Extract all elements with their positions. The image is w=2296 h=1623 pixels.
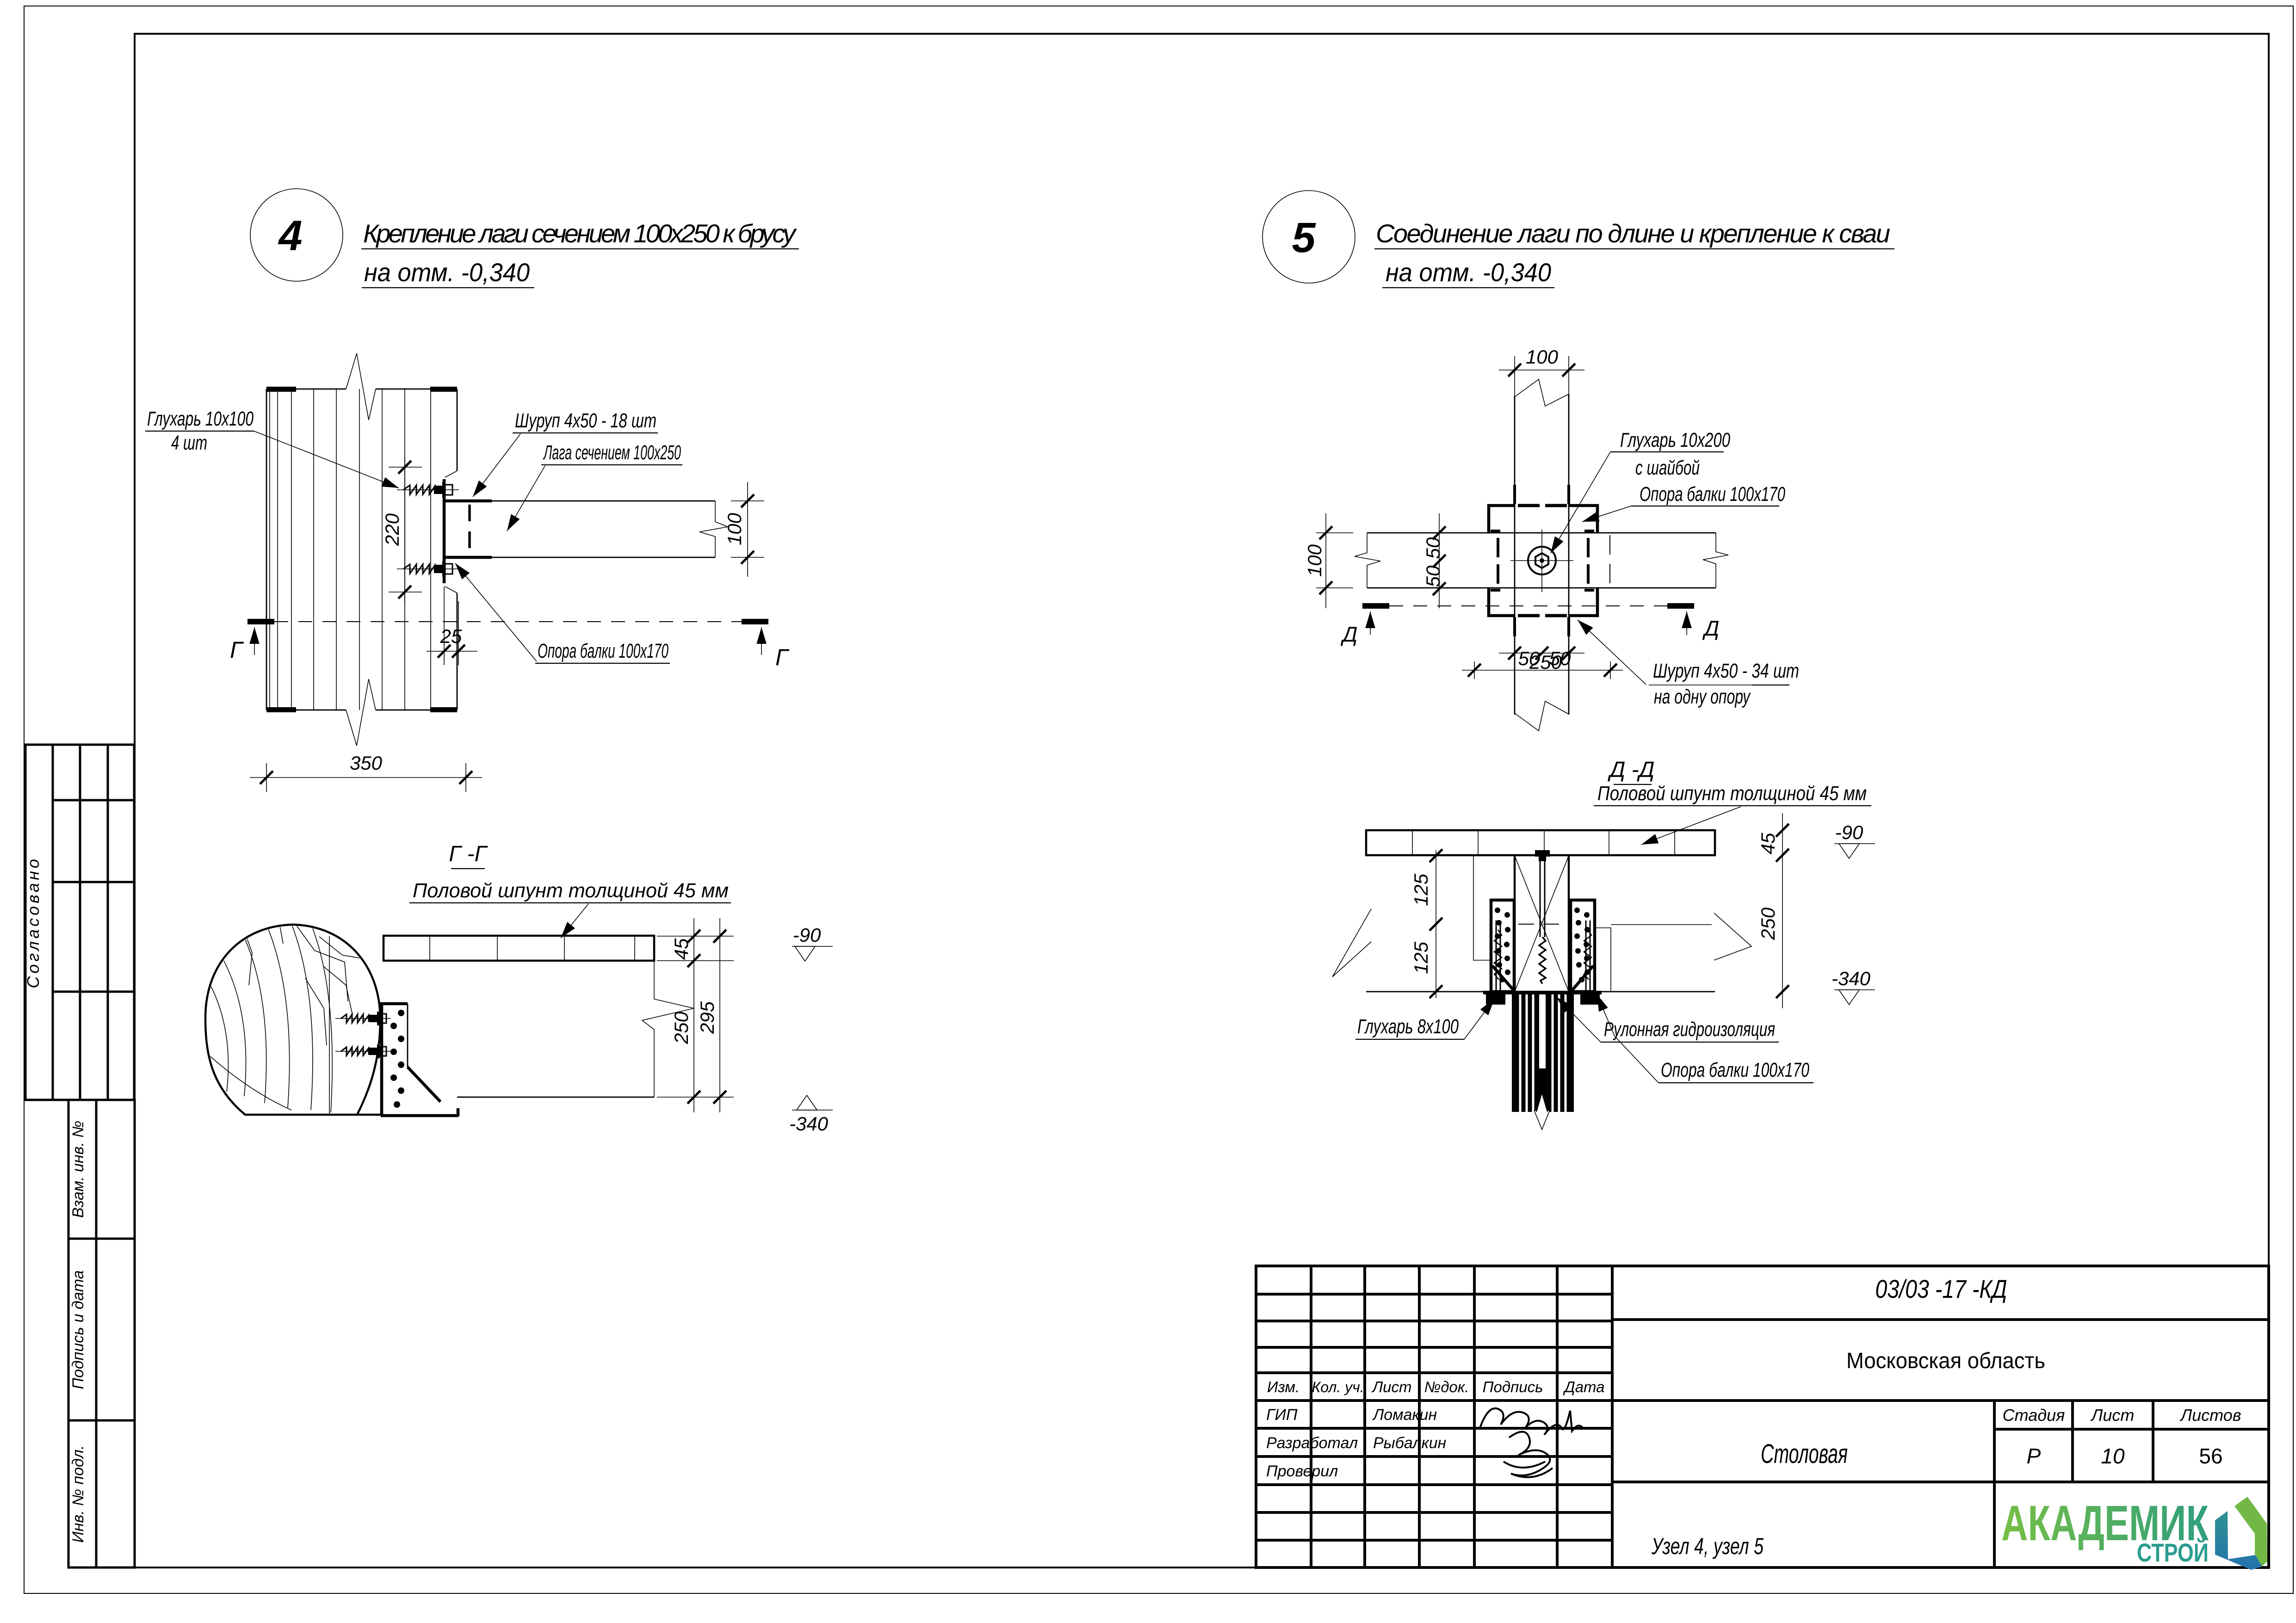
left nut cluster	[1486, 994, 1505, 1005]
svg-text:100: 100	[1526, 346, 1559, 368]
horizontal beam right end with break	[1703, 533, 1728, 588]
beam right break wedge	[1714, 913, 1751, 960]
dimension 45/250 (Д-Д right)	[1757, 813, 1789, 1008]
right hanger gusset	[1572, 966, 1593, 990]
lag screw 2 (нижний глухарь) axis	[397, 568, 459, 569]
svg-text:Шуруп 4х50 - 18 шт: Шуруп 4х50 - 18 шт	[515, 409, 656, 432]
wall edge black marks	[266, 387, 296, 392]
floor board (Д-Д)	[1366, 830, 1715, 855]
section arrow Д right	[1686, 611, 1687, 635]
beam bottom edge	[457, 1097, 654, 1098]
elevation mark -90 (Г-Г)	[792, 924, 833, 961]
leader to floor board (Д-Д)	[1641, 807, 1741, 845]
svg-text:-340: -340	[789, 1113, 829, 1135]
svg-text:Лага сечением 100х250: Лага сечением 100х250	[543, 441, 681, 464]
cross beam section edges	[1514, 856, 1516, 992]
logo icon blue ribbon	[2215, 1511, 2262, 1570]
svg-text:Р: Р	[2027, 1444, 2041, 1468]
leader to joist top	[473, 434, 520, 497]
section bar Д left	[1362, 603, 1389, 609]
svg-text:Опора балки 100х170: Опора балки 100х170	[538, 640, 668, 662]
signature 1	[1479, 1408, 1583, 1435]
wall right face lower segment	[457, 593, 458, 710]
svg-text:Г: Г	[775, 644, 790, 670]
svg-text:Взам. инв. №: Взам. инв. №	[69, 1121, 87, 1218]
dimension 100 (top)	[1499, 346, 1584, 398]
beam right end with break	[642, 961, 694, 1097]
hanger side tabs on vertical beam (hidden)	[1513, 485, 1516, 504]
dimension 220	[381, 457, 422, 602]
vertical beam top break	[1515, 379, 1569, 406]
svg-text:25: 25	[440, 625, 462, 647]
right hanger plate (Д-Д)	[1571, 900, 1595, 992]
svg-text:10: 10	[2101, 1444, 2125, 1468]
leader to washer	[1551, 452, 1610, 553]
dimension 125/125 (Д-Д left)	[1410, 849, 1442, 998]
section arrow left	[254, 627, 255, 655]
hanger corner screws	[1491, 531, 1594, 590]
leader to floor board	[561, 904, 588, 938]
lag screw 1 (верхний глухарь) axis	[397, 489, 459, 490]
lag screw 1 body	[403, 482, 452, 498]
leader to joist body	[507, 466, 545, 531]
svg-text:Проверил: Проверил	[1266, 1463, 1338, 1480]
lag screw 2 body	[403, 561, 452, 577]
section cut line Г-Г dashed	[274, 621, 742, 622]
horizontal beam bottom edge	[1367, 587, 1716, 589]
svg-text:-90: -90	[1835, 821, 1863, 843]
section arrow right	[761, 627, 762, 655]
bolt hex head	[1535, 553, 1548, 568]
detail 5 bubble	[1262, 191, 1355, 283]
right nut cluster	[1580, 994, 1600, 1005]
svg-text:на отм. -0,340: на отм. -0,340	[1386, 258, 1551, 287]
svg-text:Стадия: Стадия	[2003, 1406, 2065, 1425]
svg-text:Рулонная гидроизоляция: Рулонная гидроизоляция	[1604, 1018, 1775, 1041]
beam bottom edge (Д-Д)	[1366, 991, 1715, 993]
lower hanger screws (dashed thick)	[1518, 614, 1540, 617]
svg-text:Подпись: Подпись	[1483, 1378, 1543, 1395]
svg-text:Г -Г: Г -Г	[449, 842, 488, 866]
right hanger anchor screw	[1584, 920, 1591, 992]
dimension 50/50 (left of hanger)	[1422, 513, 1446, 608]
wall plank joints	[269, 389, 270, 710]
leader to right hanger	[1597, 994, 1659, 1083]
section bar Д right	[1667, 603, 1694, 609]
hanger bottom flange	[381, 1114, 458, 1117]
title block row lines	[1256, 1293, 1612, 1296]
vertical beam left edge	[1514, 396, 1516, 715]
dimension 25	[427, 586, 477, 665]
vertical beam right edge	[1568, 394, 1570, 715]
wall right face upper segment	[457, 389, 458, 471]
hanger top flange	[443, 500, 492, 503]
left hanger gusset	[1492, 966, 1513, 990]
right hanger nails	[1574, 907, 1590, 982]
svg-text:Глухарь 8х100: Глухарь 8х100	[1357, 1015, 1459, 1038]
svg-text:Столовая: Столовая	[1761, 1439, 1848, 1469]
dimension 100 (joist)	[724, 482, 764, 577]
svg-text:Д: Д	[1702, 616, 1719, 640]
svg-text:Глухарь 10х100: Глухарь 10х100	[147, 407, 254, 430]
hanger bottom flange	[443, 556, 492, 559]
svg-text:Разработал: Разработал	[1266, 1434, 1358, 1452]
dimension 100 (left, beam height)	[1304, 513, 1353, 608]
svg-text:03/03 -17 -КД: 03/03 -17 -КД	[1875, 1274, 2007, 1303]
horizontal beam top edge	[1367, 532, 1716, 534]
pile bottom break	[1537, 1094, 1547, 1112]
upper hanger screws (dashed thick)	[1518, 504, 1540, 507]
svg-text:45: 45	[670, 938, 692, 960]
inventory strip table (Взам.инв / Подпись и дата / Инв.№ подл.)	[68, 1100, 135, 1567]
wall notch lead-in top	[445, 471, 457, 477]
svg-text:Узел 4, узел 5: Узел 4, узел 5	[1651, 1533, 1764, 1559]
svg-text:Шуруп 4х50 - 34 шт: Шуруп 4х50 - 34 шт	[1653, 660, 1799, 682]
dimension 45 + 250 (line A)	[657, 918, 734, 1112]
leader to hanger corner	[455, 563, 537, 661]
svg-text:ГИП: ГИП	[1266, 1406, 1298, 1424]
far joist step left	[1473, 855, 1491, 960]
svg-text:на отм. -0,340: на отм. -0,340	[364, 258, 530, 287]
svg-text:4: 4	[278, 212, 302, 259]
leader to left hanger bottom	[1464, 999, 1494, 1039]
hanger flange upturn	[457, 1108, 460, 1117]
hanger right edge	[407, 1004, 408, 1067]
svg-text:Инв. № подл.: Инв. № подл.	[69, 1445, 87, 1543]
section bar right	[742, 619, 768, 624]
leader to screw 1	[254, 431, 399, 488]
wall left edge	[266, 389, 267, 710]
svg-text:с шайбой: с шайбой	[1635, 457, 1700, 479]
svg-text:Лист: Лист	[1372, 1378, 1412, 1395]
svg-text:Г: Г	[230, 637, 244, 663]
svg-text:Лист: Лист	[2091, 1406, 2135, 1425]
hanger hidden side plate (dashed)	[468, 505, 471, 554]
svg-text:-90: -90	[793, 924, 821, 946]
svg-text:Подпись и дата: Подпись и дата	[69, 1270, 87, 1389]
left hanger plate (Д-Д)	[1491, 900, 1514, 992]
hanger nail dots	[390, 1010, 404, 1108]
left hanger anchor screw	[1494, 920, 1502, 992]
svg-text:Соединение лаги по длине и кре: Соединение лаги по длине и крепление к с…	[1376, 219, 1890, 248]
svg-text:№док.: №док.	[1424, 1378, 1469, 1395]
timber wall top edge	[266, 389, 346, 390]
floor board joints (Д-Д)	[1412, 830, 1413, 855]
title block outline	[1256, 1266, 2269, 1567]
upper hanger outline	[1487, 504, 1599, 533]
section arrow Д left	[1370, 611, 1371, 635]
svg-text:Согласовано: Согласовано	[24, 856, 43, 988]
hidden joint line (dashed)	[1518, 924, 1567, 925]
elevation mark -340 (Д-Д)	[1832, 968, 1875, 1005]
svg-text:220: 220	[381, 513, 403, 546]
wall bottom edge	[266, 710, 346, 711]
svg-text:100: 100	[1304, 544, 1325, 577]
svg-text:Рыбалкин: Рыбалкин	[1373, 1434, 1446, 1452]
svg-text:Д -Д: Д -Д	[1608, 758, 1655, 782]
dimension 50/50 (bottom)	[1499, 647, 1584, 669]
svg-text:Опора балки 100х170: Опора балки 100х170	[1640, 483, 1785, 506]
title block vertical lines	[1310, 1266, 1312, 1567]
dimension 250 (bottom)	[1462, 651, 1623, 679]
svg-text:350: 350	[350, 752, 383, 774]
beam left break wedge	[1332, 909, 1371, 977]
joist (лага) top edge	[445, 500, 715, 502]
svg-text:Кол. уч.: Кол. уч.	[1312, 1379, 1364, 1395]
svg-text:45: 45	[1757, 833, 1779, 854]
wall notch lead-in bottom	[445, 586, 457, 593]
svg-text:на одну опору: на одну опору	[1654, 685, 1751, 708]
central lag screw thread	[1539, 937, 1546, 984]
section bar left	[248, 619, 274, 624]
svg-text:Изм.: Изм.	[1267, 1378, 1300, 1395]
svg-text:4 шт: 4 шт	[171, 432, 207, 454]
svg-text:Крепление лаги сечением 100х25: Крепление лаги сечением 100х250 к брусу	[363, 219, 797, 248]
hanger top tab	[380, 1002, 408, 1006]
svg-text:Листов: Листов	[2179, 1406, 2241, 1425]
logo icon green ribbon	[2234, 1497, 2267, 1567]
floor board (половой шпунт)	[384, 936, 654, 961]
vertical beam bottom break	[1515, 701, 1569, 731]
wall top break zigzag	[346, 353, 376, 420]
log flat bottom extension to hanger	[356, 1114, 382, 1116]
washer circle	[1528, 547, 1556, 574]
svg-text:50: 50	[1422, 537, 1444, 559]
center lines	[1510, 560, 1573, 561]
signature 2	[1504, 1432, 1553, 1477]
leader to hanger	[1582, 506, 1631, 522]
svg-text:Московская область: Московская область	[1846, 1349, 2045, 1373]
svg-text:250: 250	[1529, 651, 1562, 673]
lower hanger outline	[1487, 588, 1599, 617]
central lag screw shaft	[1540, 861, 1541, 937]
right part dividers	[1612, 1318, 2269, 1321]
svg-text:Опора балки 100х170: Опора балки 100х170	[1661, 1059, 1809, 1081]
left hanger nails	[1495, 907, 1510, 982]
svg-text:5: 5	[1292, 214, 1316, 261]
svg-text:СТРОЙ: СТРОЙ	[2137, 1538, 2209, 1567]
detail 4 bubble	[250, 189, 343, 281]
svg-text:100: 100	[724, 512, 745, 545]
log (бревно) outline	[205, 925, 380, 1115]
svg-text:Половой шпунт толщиной 45 мм: Половой шпунт толщиной 45 мм	[413, 879, 729, 902]
wall bottom break zigzag	[346, 679, 376, 746]
svg-text:250: 250	[670, 1011, 692, 1044]
svg-text:Половой шпунт толщиной 45 мм: Половой шпунт толщиной 45 мм	[1597, 782, 1867, 805]
hanger diagonal gusset	[408, 1067, 440, 1102]
dimension 350	[250, 752, 482, 792]
bottom flange / hydro insulation line	[1483, 991, 1602, 994]
cross beam section X diagonals	[1515, 856, 1569, 992]
dimension 295 (line B)	[696, 918, 726, 1112]
hanger hidden side screws in beam (dashed thick)	[1498, 538, 1588, 584]
horizontal beam left end with break	[1355, 533, 1380, 588]
section cut line Д-Д dashed	[1389, 605, 1667, 606]
svg-text:125: 125	[1410, 941, 1432, 974]
svg-text:-340: -340	[1832, 968, 1871, 989]
svg-text:250: 250	[1757, 907, 1779, 940]
elevation mark -90 (Д-Д)	[1834, 821, 1875, 858]
approval strip table (Согласовано)	[24, 745, 134, 1100]
hanger back plate (Г-Г)	[380, 1004, 384, 1116]
joist right end with break	[699, 501, 728, 557]
leader to lower hanger	[1578, 620, 1646, 685]
svg-text:125: 125	[1410, 873, 1432, 906]
svg-text:Дата: Дата	[1562, 1378, 1604, 1395]
near joist step right	[1596, 928, 1611, 992]
svg-text:56: 56	[2199, 1444, 2222, 1468]
svg-text:50: 50	[1422, 565, 1444, 587]
joist end line right	[1611, 924, 1712, 925]
leader to hydro insulation	[1557, 997, 1601, 1042]
central lag screw head	[1535, 850, 1550, 857]
joist hanger back plate	[443, 479, 446, 583]
elevation mark -340 (Г-Г)	[789, 1095, 833, 1135]
joist butt joint (hidden)	[1609, 535, 1610, 586]
svg-text:295: 295	[696, 1001, 718, 1034]
joist bottom edge	[445, 557, 715, 558]
svg-text:Д: Д	[1340, 622, 1357, 646]
svg-text:Ломакин: Ломакин	[1372, 1406, 1437, 1424]
floor board joints	[429, 936, 430, 961]
hanger screws into log (2 шт)	[335, 1012, 391, 1025]
log cut face vertical	[329, 936, 330, 1114]
svg-text:Глухарь 10х200: Глухарь 10х200	[1620, 429, 1730, 451]
screw pile shaft (hatched)	[1512, 994, 1574, 1112]
